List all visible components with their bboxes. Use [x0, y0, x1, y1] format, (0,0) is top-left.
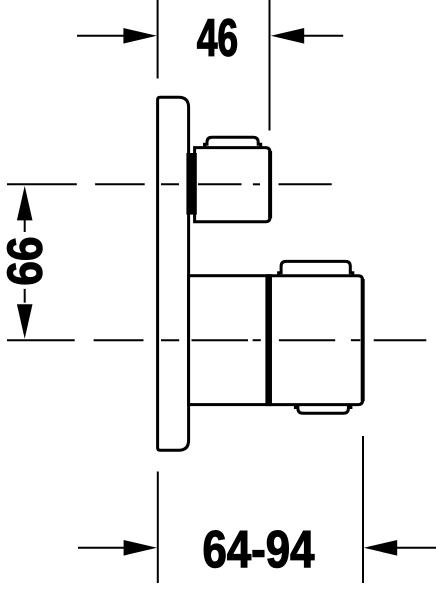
dim 64-94 arrow left: [124, 540, 157, 556]
dim 64-94 arrow right: [364, 540, 397, 556]
dim 64-94 label: [204, 531, 314, 568]
upper centerline: [7, 183, 332, 185]
dim 66 leader top: [24, 218, 26, 232]
dim 66 arrow up: [17, 186, 33, 221]
lower handle top cap: [279, 261, 353, 277]
dim 64-94 leader right: [397, 547, 436, 549]
lower handle body: [270, 276, 362, 405]
dim 66 leader bottom: [24, 289, 26, 303]
joint bar between sleeve and lower handle: [266, 274, 272, 406]
dim 46 arrow left: [123, 28, 156, 44]
lower handle front edge: [361, 279, 365, 401]
dim 46 leader right: [303, 35, 343, 37]
dim 66 label: [7, 238, 42, 284]
wall plate (escutcheon side view): [158, 97, 189, 450]
dim 66 arrow down: [17, 304, 33, 339]
dim 64-94 extension line left: [157, 472, 159, 584]
dim 46 extension line left: [157, 0, 159, 79]
dim 46 label: [197, 19, 236, 57]
upper handle front edge: [268, 151, 272, 218]
dim 64-94 extension line right: [362, 436, 364, 583]
dim 46 leader left: [77, 35, 125, 37]
dim 46 arrow right: [271, 28, 304, 44]
dim 46 extension line right: [269, 0, 271, 131]
upper handle cap: [205, 137, 261, 149]
lower centerline: [7, 339, 426, 341]
lower escutcheon sleeve: [189, 276, 267, 405]
lower handle bottom cap: [295, 403, 351, 413]
dim 64-94 leader left: [78, 547, 126, 549]
upper handle body: [195, 148, 270, 222]
upper handle collar: [186, 153, 196, 215]
